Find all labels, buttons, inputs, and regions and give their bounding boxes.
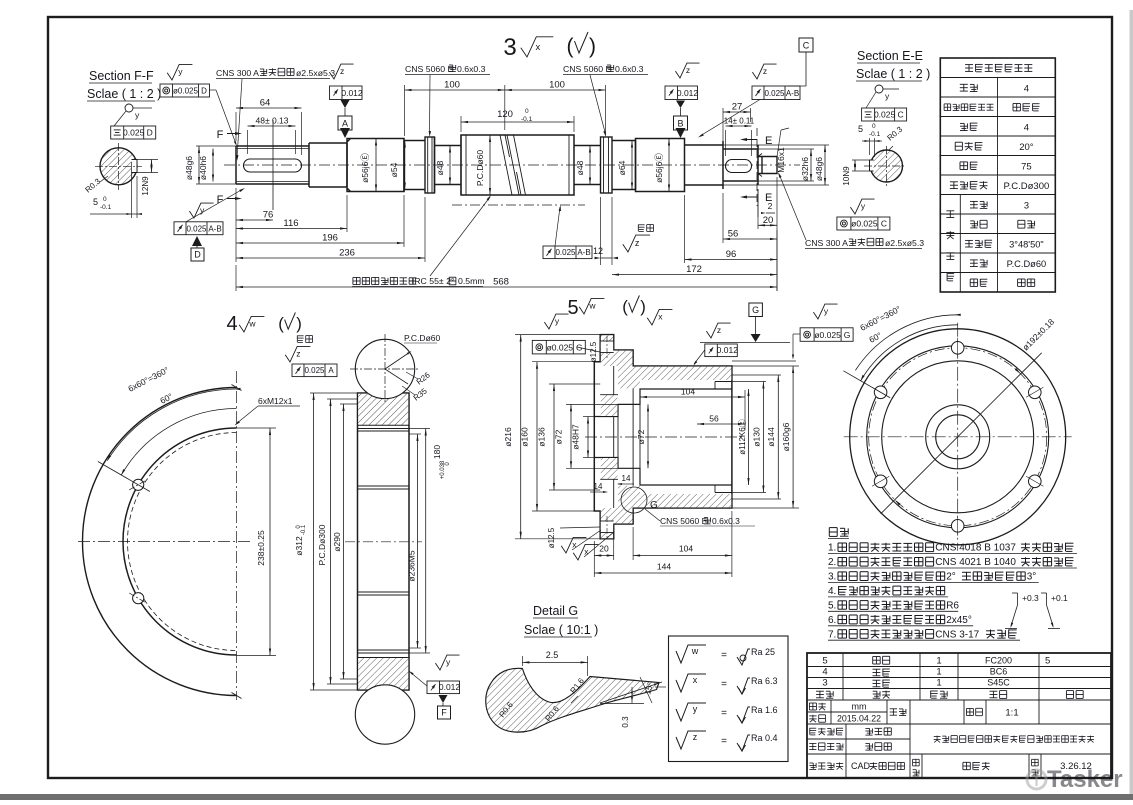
svg-text:Ra 25: Ra 25 [751,647,775,657]
svg-text:G: G [650,500,658,511]
svg-text:1: 1 [936,656,941,667]
svg-text:ø54: ø54 [389,162,399,177]
flange circle view outer [850,329,1066,545]
shaft neck phi48 right of worm [574,146,601,185]
flange radial line 150deg [843,371,890,398]
keyway slot left (top view) [244,159,302,172]
svg-text:1: 1 [936,678,941,689]
svg-text:100: 100 [549,80,565,91]
svg-text:ø56j6Ⓔ: ø56j6Ⓔ [360,153,370,183]
shaft journal phi56j6 left [347,139,404,192]
gear dim phi312 [310,392,358,394]
svg-text:180: 180 [432,445,442,459]
bottom row job title [845,754,847,778]
svg-text:G: G [752,305,759,315]
svg-text:104: 104 [679,544,693,554]
svg-text:B: B [677,119,683,129]
svg-text:P.C.Dø300: P.C.Dø300 [317,524,327,565]
dimension 2 chamfer [757,189,759,217]
svg-text:0: 0 [103,196,107,203]
flange bolt holes [951,342,964,355]
cover left ext and dims [515,334,600,336]
datum G box above [749,303,763,317]
shaft centerline [224,164,800,166]
competition name cell [934,736,1094,743]
svg-text:0.6x0.3: 0.6x0.3 [712,516,740,526]
svg-text:z: z [717,325,721,335]
flange angular dim arcs [861,325,958,381]
dimension 100 right [505,89,606,91]
svg-text:-0.1: -0.1 [869,131,881,138]
dimension 120 -0.1 [461,121,574,123]
section E-E keyway [870,160,874,171]
svg-text:14: 14 [622,474,631,483]
section F-F keyway [132,160,138,173]
arc view end ticks [232,385,242,391]
svg-text:CNS 5060 E: CNS 5060 E [405,64,453,74]
svg-text:96: 96 [726,249,737,260]
dimension 196 [236,242,404,244]
svg-text:12: 12 [593,246,603,256]
svg-text:F: F [441,708,447,718]
relief ring right [601,137,613,193]
keyway slot right [726,160,752,173]
svg-text:(: ( [278,314,284,333]
svg-text:Sclae ( 10:1 ): Sclae ( 10:1 ) [524,623,598,637]
svg-text:(: ( [567,35,574,58]
title block [807,653,1111,778]
svg-text:): ) [296,314,302,333]
surface y + FCF conc 0.025 D top left [167,64,192,80]
svg-text:y: y [446,657,451,667]
svg-text:100: 100 [444,80,460,91]
dimension 12 ring [600,197,602,265]
svg-text:ø56j6Ⓔ: ø56j6Ⓔ [654,153,664,183]
svg-text:64: 64 [260,98,271,109]
surface y + FCF conc 0.025 G view5 top-left [544,314,568,329]
svg-text:4.: 4. [828,586,836,597]
svg-text:20: 20 [763,215,774,226]
M16 threaded stub [758,157,777,174]
parts header row [816,691,833,698]
svg-text:ø64: ø64 [617,160,627,175]
shaft key section phi32h6 [723,145,758,185]
svg-text:z: z [686,65,690,75]
roughness equivalence table [669,636,789,762]
svg-text:Section F-F: Section F-F [89,69,154,83]
svg-text:CNS 300 A: CNS 300 A [805,238,848,248]
svg-text:=: = [721,650,727,661]
datum target circle y EE [875,85,883,93]
FCF runout 0.012 gear bottom [435,655,459,670]
svg-text:120: 120 [497,109,513,120]
svg-text:ø72: ø72 [554,429,564,444]
svg-text:R6: R6 [946,601,959,612]
shaft journal phi56j6 right [636,139,685,192]
svg-text:20: 20 [599,544,609,554]
svg-text:Sclae ( 1 : 2 ): Sclae ( 1 : 2 ) [856,67,930,81]
svg-text:ø0.025: ø0.025 [851,219,878,229]
worm wheel pitch arc dashdot [452,204,585,206]
svg-text:-0.1: -0.1 [100,204,112,211]
roughness row z [676,731,706,749]
svg-text:0.5mm: 0.5mm [458,276,485,286]
svg-text:1: 1 [936,667,941,678]
dimension 64 [236,107,302,109]
svg-text:A-B: A-B [577,248,590,257]
svg-text:ø160: ø160 [520,427,530,447]
svg-text:ø32h6: ø32h6 [800,157,810,181]
svg-text:104: 104 [681,387,695,397]
svg-text:F: F [217,194,224,206]
svg-text:Section E-E: Section E-E [857,49,923,63]
gear section bottom hatch band [358,658,408,690]
table header worm wheel data [965,64,1032,71]
svg-text:12N9: 12N9 [141,176,150,196]
svg-text:ø0.025: ø0.025 [173,87,198,96]
svg-text:76: 76 [263,210,274,221]
svg-text:ø48: ø48 [575,160,585,175]
flange circle r32 [926,405,990,469]
svg-text:4: 4 [1024,83,1029,94]
cover dim 56 inner [697,423,745,425]
datum A box [341,100,350,108]
svg-text:ø12.5: ø12.5 [547,527,556,548]
section E-E circle [871,150,903,182]
arc view gear tooth arc solid [123,428,237,655]
datum D box [192,236,202,246]
svg-text:FC200: FC200 [985,656,1012,666]
svg-text:w: w [691,646,699,656]
surface z + FCF total runout 0.025 A-B top right [752,64,776,79]
svg-text:0.025: 0.025 [555,248,576,257]
svg-text:14: 14 [594,482,603,491]
svg-text:0.012: 0.012 [677,88,699,98]
svg-text:ø236M5: ø236M5 [407,550,417,581]
flange circle r91 [867,346,1049,528]
flange circle r76 [882,361,1034,513]
angular dim arcs view4 [121,409,236,476]
table row tooth profile value [1013,104,1040,111]
detail G angle 15deg [600,682,662,703]
svg-text:568: 568 [493,277,509,288]
svg-text:HRC 55± 2°: HRC 55± 2° [408,276,454,286]
FCF symmetry 0.025 C EE [862,108,907,121]
svg-text:1:1: 1:1 [1005,708,1018,719]
svg-text:x: x [658,312,663,322]
svg-text:ø160g6: ø160g6 [781,422,791,451]
svg-text:ø216: ø216 [503,427,513,447]
svg-text:M16x1: M16x1 [776,147,786,173]
arc view outer arc [83,388,237,696]
surface x caption5 [647,309,672,325]
cover dim phi144 [732,374,781,376]
flange circle r22 [936,415,980,459]
shaft section phi54 left [404,141,425,192]
dimension 172 [612,274,777,276]
svg-text:0.012: 0.012 [439,682,461,692]
cover hatch bottom [601,486,732,539]
gear dim phi236M5 [409,433,421,435]
svg-text:w: w [248,319,256,329]
svg-text:Sclae ( 1 : 2 ): Sclae ( 1 : 2 ) [87,87,161,101]
cover hole section bottom white [601,521,613,533]
section E-E cutting line [756,128,758,206]
svg-text:CAD: CAD [851,761,871,771]
label hardness note [353,277,417,284]
svg-text:ø12.5: ø12.5 [589,341,598,362]
svg-text:172: 172 [686,264,702,275]
flange centerline vertical [957,323,959,551]
svg-text:14± 0.11: 14± 0.11 [724,117,755,126]
surface y + FCF conc 0.025 C below EE [850,199,874,214]
table matching worm section [959,195,961,293]
svg-text:CNS 5060 E: CNS 5060 E [660,516,708,526]
svg-text:3°48'50": 3°48'50" [1009,239,1044,249]
dimension 100 left [405,89,505,91]
svg-text:z: z [693,732,698,742]
svg-text:G: G [844,330,851,340]
grinding note wheel+z view4 [297,336,313,343]
detail G crescent shape [486,668,659,732]
svg-text:2: 2 [768,201,773,211]
surface z + FCF runout 0.012 view5 [706,323,730,338]
svg-text:x: x [693,675,698,685]
dimension 20 [758,224,777,226]
svg-text:0.025: 0.025 [304,366,325,375]
surface symbol w caption 4 [239,316,264,332]
svg-text:CNS 300 A: CNS 300 A [216,68,259,78]
worm gear data table [940,58,1055,292]
svg-text:10N9: 10N9 [842,166,851,186]
gear dim phi290 [340,403,358,405]
cover hole section top white [601,341,613,353]
svg-text:+0.1: +0.1 [1051,593,1068,603]
gear section mid lines [358,485,410,487]
svg-text:5: 5 [567,297,578,319]
svg-text:CNS 3-17: CNS 3-17 [935,629,979,640]
svg-text:+0.3: +0.3 [1022,593,1039,603]
surface x symbols bottom left view5 [561,537,586,553]
arc view bolt hole 210deg [133,593,144,604]
arc view bolt hole 150deg [133,479,144,490]
svg-text:0.012: 0.012 [341,88,363,98]
cover hatch top [601,335,732,388]
svg-text:3.: 3. [828,572,836,583]
svg-text:6.: 6. [828,615,836,626]
svg-text:ø130: ø130 [752,427,762,447]
detail G dim 2.5 [521,656,523,666]
surface symbol x caption 3 [521,37,554,57]
dimension 76 [236,219,273,221]
svg-text:x: x [536,42,541,53]
section F-F cutting line [272,120,274,210]
cover dim phi72 inner [647,404,649,468]
svg-text:-0.1: -0.1 [521,116,533,123]
notes header [829,528,848,537]
svg-text:0.012: 0.012 [717,345,739,355]
cover ext lines right [732,365,799,367]
svg-text:5.: 5. [828,601,836,612]
svg-text:5: 5 [822,656,827,667]
parts list rows [807,666,1111,668]
section F-F circle [100,148,137,185]
gear section top hatch band [358,394,408,426]
svg-text:y: y [693,704,698,714]
datum target circle y upper left [125,104,133,112]
svg-text:CNS 5060 E: CNS 5060 E [563,64,611,74]
cover dim phi130 [732,381,766,383]
arc view horizontal centerline [78,541,250,543]
svg-text:(: ( [622,297,628,316]
svg-text:ø144: ø144 [766,427,776,447]
svg-text:y: y [178,67,183,77]
surface y + FCF runout 0.025 A-B left lower [189,203,213,218]
grinding note wheel+z mid shaft [638,225,654,232]
svg-text:z: z [296,349,300,359]
svg-text:2.: 2. [828,557,836,568]
svg-text:0.025: 0.025 [123,128,145,138]
svg-text:2°: 2° [946,572,956,583]
datum C box [799,38,813,52]
cover bores white [594,389,732,485]
svg-text:P.C.Dø60: P.C.Dø60 [475,150,485,186]
svg-text:116: 116 [283,218,298,229]
dimension 238+-0.25 [237,427,277,429]
svg-text:w: w [588,301,596,311]
svg-text:A: A [342,119,348,129]
dimension 14 +-0.11 [726,125,752,127]
shaft neck phi48 left of worm [435,137,462,193]
svg-text:=: = [721,679,727,690]
FCF conc 0.025 G right [813,304,837,319]
svg-text:C: C [803,41,810,51]
svg-text:A: A [328,366,334,375]
gear dim PCD300 [327,398,358,400]
svg-text:ø0.025: ø0.025 [547,343,574,353]
svg-text:56: 56 [709,414,719,424]
svg-text:Ra 1.6: Ra 1.6 [751,705,778,715]
svg-text:48± 0.13: 48± 0.13 [255,116,288,126]
svg-text:ø48: ø48 [435,160,445,175]
dimension 96 [685,259,778,261]
svg-text:2.5: 2.5 [546,650,559,660]
svg-text:D: D [194,250,201,260]
svg-text:ø290: ø290 [332,532,342,552]
svg-text:C: C [881,219,887,229]
svg-text:4: 4 [822,667,827,678]
competition rows [807,738,910,740]
roughness row x [676,674,706,692]
svg-text:0: 0 [525,108,529,115]
svg-text:ø0.025: ø0.025 [814,330,841,340]
svg-text:CNS 4018 B 1037: CNS 4018 B 1037 [935,543,1016,554]
svg-text:): ) [640,297,646,316]
svg-text:Detail G: Detail G [533,604,578,618]
svg-text:CNS 4021 B 1040: CNS 4021 B 1040 [935,557,1016,568]
shaft section phi48g6 right [685,141,724,189]
svg-text:S45C: S45C [987,678,1010,688]
FCF runout 0.025 A view4 [292,364,337,377]
svg-text:5: 5 [93,197,98,207]
svg-text:ø136: ø136 [537,427,547,447]
svg-text:=: = [721,736,727,747]
arc view vertical centerline [236,371,238,700]
svg-text:4: 4 [1024,122,1029,133]
FCF runout 0.025 A-B below worm [543,246,592,259]
svg-text:20°: 20° [1019,142,1034,153]
page shadow bottom [0,794,1133,800]
worm pitch circle top of gear [355,339,414,398]
EE dims [852,159,870,161]
svg-text:1.: 1. [828,543,836,554]
worm helical thread lines [500,135,512,195]
svg-text:5: 5 [858,124,863,134]
svg-text:z: z [635,238,640,248]
detail G circle on view5 [621,487,647,513]
svg-text:D: D [201,87,207,96]
svg-text:A-B: A-B [208,224,221,233]
svg-text:0: 0 [872,123,876,130]
cover section outline [594,335,732,539]
gear section rect [358,393,410,690]
svg-text:A-B: A-B [786,89,799,98]
svg-text:0.025: 0.025 [764,89,785,98]
dimension 236 [236,257,425,259]
cover bottom dims [593,541,595,577]
svg-text:z: z [763,66,767,76]
dimension 116 [236,228,347,230]
dimension 48 +-0.13 [248,125,296,127]
svg-text:6xM12x1: 6xM12x1 [258,396,293,406]
unit date rows [807,711,887,713]
svg-text:F: F [217,129,224,141]
svg-text:238±0.25: 238±0.25 [256,530,266,566]
svg-text:mm: mm [852,702,867,712]
FCF symmetry 0.025 D left [111,126,156,139]
worm body PCD60 [461,135,574,195]
cover dim phi160g6 [792,366,794,508]
svg-text:2015.04.22: 2015.04.22 [837,714,881,724]
detail G dim 0.3 [600,703,644,705]
worm end inner lines [465,135,467,195]
shaft section 2 [309,143,347,187]
dimension 56 [723,238,777,240]
label R35 leader [402,386,415,395]
svg-text:ø48H7: ø48H7 [571,424,581,450]
svg-text:P.C.Dø60: P.C.Dø60 [404,333,440,343]
svg-text:ø312: ø312 [294,536,304,556]
surface symbol z + FCF runout 0.012 left [329,64,353,79]
svg-text:0.025: 0.025 [186,224,207,233]
svg-text:3: 3 [1024,200,1029,210]
svg-text:z: z [340,66,344,76]
dimension 27 [723,111,751,113]
svg-text:ø40h6: ø40h6 [198,156,208,180]
svg-text:ø2.5xø5.3: ø2.5xø5.3 [296,68,335,78]
svg-text:ø72: ø72 [636,429,646,444]
worm pitch circle bottom of gear [355,685,414,744]
shaft keyed left section phi48g6 [236,146,309,184]
svg-text:4: 4 [226,313,237,335]
svg-text:56: 56 [728,229,739,240]
svg-text:P.C.Dø60: P.C.Dø60 [1007,259,1047,269]
radial line through hole view4 [98,462,150,492]
relief ring left [425,137,435,193]
svg-text:BC6: BC6 [990,667,1008,677]
svg-text:): ) [589,35,596,58]
roughness row y [676,703,706,721]
